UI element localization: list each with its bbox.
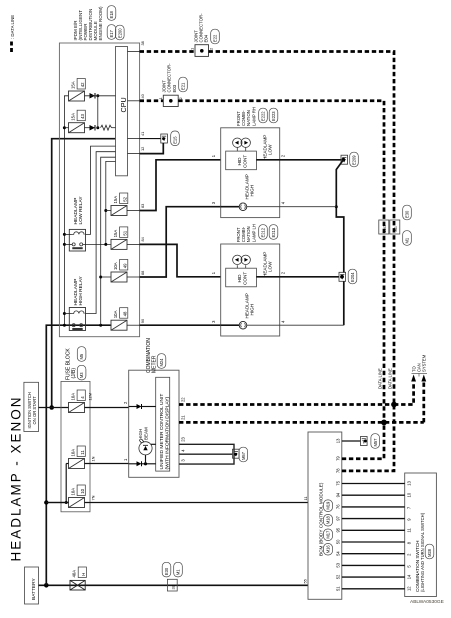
- fuse 10A 10 label: [70, 485, 85, 496]
- fuse 10A 48: [111, 320, 127, 330]
- node battery rail junction: [44, 583, 49, 588]
- fuse 10A 49 label: [113, 260, 128, 271]
- svg-text:M24: M24: [159, 358, 164, 367]
- wire comb switch row 52-14: [342, 576, 405, 578]
- wire comb switch row 50-8: [342, 541, 405, 543]
- wire fuse10 input: [46, 502, 68, 504]
- fusible link 40A H: [70, 580, 85, 590]
- wire LED to unit: [151, 443, 156, 445]
- wire CPU to low relay coil: [86, 146, 116, 234]
- svg-text:21: 21: [181, 415, 186, 420]
- fusible link label 40A H: [71, 567, 86, 578]
- svg-text:2: 2: [209, 48, 214, 50]
- diode after fuse 43: [90, 125, 96, 131]
- svg-text:E213: E213: [271, 227, 276, 237]
- wire fuse11 input: [66, 463, 68, 465]
- node bus high contact: [63, 324, 66, 327]
- svg-text:LOW RELAY: LOW RELAY: [78, 196, 84, 225]
- node CAN-H junction: [391, 402, 397, 408]
- joint connector E03 label: [162, 63, 177, 93]
- wire fuse48 out: [127, 324, 140, 326]
- lamp LH xenon bulb: [233, 255, 251, 268]
- svg-text:M5: M5: [79, 353, 84, 359]
- fuse 10A 11 label: [70, 446, 85, 457]
- svg-text:E15: E15: [173, 136, 178, 144]
- svg-text:49: 49: [123, 263, 128, 268]
- svg-text:15A: 15A: [113, 196, 118, 204]
- svg-text:ON OR START: ON OR START: [32, 396, 37, 425]
- node LH ground: [340, 275, 344, 279]
- label TO CAN SYSTEM: [411, 354, 427, 376]
- svg-text:M3: M3: [79, 372, 84, 378]
- wire fuse42 row to CPU: [85, 95, 116, 97]
- svg-text:15A: 15A: [70, 113, 75, 121]
- svg-text:51: 51: [336, 586, 341, 591]
- svg-text:M57: M57: [241, 451, 246, 460]
- fuse 10A 4 label: [70, 390, 85, 401]
- connector oval E222: [259, 108, 268, 123]
- connector oval E223: [269, 108, 278, 123]
- svg-text:83: 83: [140, 204, 145, 208]
- wire diode2 to unit: [142, 406, 156, 408]
- wire 7N to BCM: [85, 502, 309, 504]
- svg-text:7N: 7N: [91, 495, 96, 500]
- svg-text:13: 13: [406, 480, 411, 485]
- svg-text:41: 41: [140, 132, 145, 136]
- wire fuse49 input: [101, 276, 111, 278]
- node RH pin4 join: [335, 205, 338, 208]
- wire comb switch row 97-9: [342, 518, 405, 520]
- svg-text:38: 38: [140, 41, 145, 45]
- wire ignition row: [39, 407, 69, 409]
- meter pin1 row: [129, 463, 137, 465]
- ignition switch box: [24, 382, 39, 431]
- connector oval M28: [425, 544, 434, 559]
- svg-text:ENGINE ROOM): ENGINE ROOM): [98, 6, 103, 41]
- svg-text:52: 52: [336, 574, 341, 579]
- lamp RH xenon bulb: [233, 138, 251, 151]
- wire high coil left: [64, 313, 71, 315]
- svg-text:53: 53: [336, 562, 341, 567]
- node bus feed: [99, 324, 102, 327]
- svg-text:(LIGHTING AND TURN SIGNAL SWIT: (LIGHTING AND TURN SIGNAL SWITCH): [420, 512, 425, 592]
- connector oval M3: [77, 365, 86, 380]
- lamp RH label: [236, 107, 256, 126]
- connector oval M17: [324, 529, 333, 541]
- lamp RH HEADLAMP HIGH label: [245, 174, 255, 199]
- IPDM E/R label: [73, 6, 103, 41]
- svg-text:E30: E30: [405, 210, 410, 218]
- svg-text:10A: 10A: [113, 262, 118, 270]
- svg-text:CONT: CONT: [242, 155, 247, 168]
- svg-text:75: 75: [336, 480, 341, 485]
- wire battery feed into IPDM: [52, 324, 112, 326]
- fuse 15A 51: [111, 239, 127, 249]
- connector oval E30 CAN: [403, 205, 412, 220]
- svg-text:SYSTEM: SYSTEM: [422, 354, 427, 372]
- node fuse10 input junction: [65, 501, 68, 504]
- connector oval E209: [350, 152, 359, 167]
- svg-text:88: 88: [140, 271, 145, 275]
- connector oval M5: [77, 347, 86, 362]
- connector oval M1 CAN: [403, 231, 412, 246]
- headlamp low relay label: [73, 196, 84, 225]
- svg-text:78: 78: [336, 468, 341, 473]
- connector oval E22: [211, 29, 220, 44]
- M57 connector box BCM: [361, 437, 368, 446]
- combination meter box: [129, 370, 179, 477]
- svg-text:E04: E04: [204, 34, 209, 42]
- wire RH low feed: [140, 160, 221, 211]
- front combination lamp RH box: [221, 128, 280, 218]
- svg-text:54: 54: [336, 551, 341, 556]
- wire row12 to E15: [140, 143, 164, 154]
- svg-text:40A: 40A: [71, 570, 76, 578]
- svg-text:BCM (BODY CONTROL MODULE): BCM (BODY CONTROL MODULE): [319, 482, 324, 556]
- lamp RH HEADLAMP LOW label: [263, 135, 273, 160]
- svg-text:M1: M1: [176, 569, 181, 575]
- svg-text:CONT: CONT: [242, 272, 247, 285]
- svg-text:LAMP LH: LAMP LH: [251, 224, 256, 242]
- ground E209 box: [341, 155, 348, 164]
- connector oval M57 meter: [239, 447, 248, 462]
- wire meter row21 dashed: [179, 421, 424, 424]
- svg-text:M16: M16: [326, 545, 331, 554]
- wire LH high bulb row: [221, 324, 240, 326]
- battery box: [25, 567, 39, 604]
- fuse 15A 42: [69, 91, 85, 101]
- wire fuse43 input: [64, 127, 68, 129]
- node ignition rail to ign row: [49, 405, 54, 410]
- wire RH pin4 row: [280, 206, 337, 208]
- svg-text:11: 11: [406, 528, 411, 533]
- fuse 10A 11: [69, 459, 85, 469]
- high beam label: [138, 427, 148, 440]
- wire high beam branch: [145, 455, 147, 464]
- wire CPU row40 inside: [128, 100, 140, 102]
- wire low contact output: [83, 243, 111, 245]
- connector oval E17: [107, 25, 116, 40]
- node low bus contact row: [104, 243, 107, 246]
- combination switch label: [415, 512, 425, 592]
- svg-text:1N: 1N: [91, 456, 96, 461]
- fuse 10A 10: [69, 498, 85, 508]
- svg-text:LOW: LOW: [268, 261, 273, 272]
- connector oval M1 battery wire: [174, 562, 183, 577]
- wire CPU to high fuse bus: [101, 157, 116, 325]
- svg-text:10: 10: [80, 488, 85, 493]
- front combination lamp LH box: [221, 244, 280, 336]
- relay headlamp high box: [69, 308, 85, 331]
- fuse 10A 49: [111, 272, 127, 282]
- svg-text:12: 12: [406, 586, 411, 591]
- pass-through 8G box: [390, 220, 400, 234]
- wire fuse49 out: [127, 276, 140, 278]
- wire CPU to high relay coil: [86, 152, 116, 314]
- svg-text:3Z: 3Z: [171, 584, 176, 589]
- svg-text:E22: E22: [213, 34, 218, 42]
- svg-text:LAMP RH: LAMP RH: [251, 107, 256, 126]
- wire meter rows 23-3 loop: [179, 444, 234, 464]
- svg-text:55: 55: [303, 579, 308, 583]
- connector oval E213: [269, 225, 278, 240]
- svg-text:DATA LINE: DATA LINE: [387, 368, 392, 389]
- relay headlamp low box: [69, 229, 85, 251]
- fuse 15A 43 label: [70, 110, 85, 121]
- wire comb switch row 95-11: [342, 529, 405, 531]
- wire row41 to E15: [140, 138, 161, 140]
- diode meter pin2: [137, 404, 142, 409]
- wire fuse52 out: [127, 210, 140, 212]
- fuse 15A 51 label: [113, 227, 128, 238]
- wire BCM pin13 row: [342, 440, 361, 442]
- svg-text:M28: M28: [427, 548, 432, 557]
- lamp LH label: [236, 224, 256, 242]
- diode after fuse 42: [90, 93, 96, 99]
- relay high coil: [72, 311, 85, 314]
- fuse 10A 48 label: [113, 308, 128, 319]
- wire ground vertical upper: [336, 160, 344, 273]
- wire fuse52 input: [106, 210, 111, 212]
- joint connector E04 label: [193, 13, 208, 43]
- meter M57 connector box: [233, 449, 240, 458]
- svg-text:10A: 10A: [113, 310, 118, 318]
- wire low contact left: [64, 243, 72, 245]
- svg-text:M1: M1: [405, 237, 410, 243]
- svg-text:(J/B): (J/B): [71, 368, 77, 379]
- lamp RH high bulb: [239, 203, 247, 211]
- svg-text:E212: E212: [261, 227, 266, 237]
- ground E204 box: [339, 272, 346, 281]
- svg-text:2: 2: [178, 97, 183, 99]
- node diode43 output: [96, 126, 99, 129]
- svg-text:E204: E204: [350, 272, 355, 282]
- wire meter row4: [179, 453, 233, 455]
- svg-text:: DATA LINE: : DATA LINE: [10, 15, 15, 39]
- svg-text:13: 13: [336, 438, 341, 443]
- svg-text:15A: 15A: [70, 81, 75, 89]
- wire IPDM internal bus: [64, 96, 68, 325]
- wire BCM row79 dashed: [342, 422, 384, 458]
- IPDM E/R box: [59, 43, 139, 337]
- wire comb switch row 76-7: [342, 506, 405, 508]
- svg-text:E03: E03: [172, 84, 177, 92]
- relay high contact: [72, 324, 83, 330]
- svg-text:DATA LINE: DATA LINE: [377, 368, 382, 389]
- node high bus fuse49: [99, 276, 102, 279]
- lamp LH HEADLAMP LOW label: [263, 252, 273, 277]
- lamp RH HID CONT label: [237, 155, 247, 168]
- arrow CAN-L: [421, 375, 426, 382]
- wire battery rail vertical: [46, 325, 51, 585]
- svg-text:12: 12: [140, 147, 145, 151]
- svg-text:76: 76: [336, 504, 341, 509]
- node meter M57: [234, 453, 237, 456]
- fuse 15A 52 label: [113, 193, 128, 204]
- svg-text:8G: 8G: [393, 226, 398, 231]
- svg-text:H: H: [81, 573, 86, 576]
- svg-text:23: 23: [181, 436, 186, 441]
- fuse 15A 52: [111, 206, 127, 216]
- node bus high coil: [63, 312, 66, 315]
- svg-text:95: 95: [336, 527, 341, 532]
- svg-text:ABLWA0530GE: ABLWA0530GE: [410, 599, 444, 605]
- wire LH pin2 to ground: [280, 276, 339, 278]
- connector oval E21: [179, 77, 188, 92]
- connector oval E200: [116, 25, 125, 40]
- svg-text:79: 79: [336, 456, 341, 461]
- wire low coil left: [64, 233, 71, 235]
- svg-text:M17: M17: [326, 530, 331, 539]
- fuse 10A 4: [69, 403, 85, 413]
- connector oval E212: [259, 225, 268, 240]
- resistor on fuse43 row: [101, 125, 112, 130]
- wire comb switch row 51-12: [342, 588, 405, 590]
- svg-text:11: 11: [303, 496, 308, 500]
- svg-text:14: 14: [406, 574, 411, 579]
- wire CPU row38 inside: [128, 51, 140, 53]
- svg-text:48: 48: [123, 311, 128, 316]
- wire meter row22 dashed: [179, 403, 394, 406]
- svg-text:E223: E223: [271, 111, 276, 121]
- fuse 15A 43: [69, 123, 85, 133]
- connector oval E204: [348, 269, 357, 284]
- node E03: [169, 99, 173, 103]
- svg-text:HIGH RELAY: HIGH RELAY: [78, 276, 84, 306]
- unified meter label: [159, 394, 170, 470]
- wire fuse43 row: [85, 127, 90, 129]
- arrow CAN-H: [411, 375, 416, 382]
- svg-text:19G: 19G: [382, 225, 387, 232]
- svg-text:E209: E209: [352, 155, 357, 165]
- wire CPU row41 inside: [128, 138, 140, 140]
- svg-text:15A: 15A: [113, 230, 118, 238]
- svg-text:10A: 10A: [70, 449, 75, 457]
- svg-text:11: 11: [80, 450, 85, 455]
- wire 1N to meter: [85, 463, 129, 465]
- wire CAN row38 dashed cont: [209, 52, 395, 405]
- svg-text:97: 97: [336, 515, 341, 520]
- legend data line sample: [10, 42, 13, 53]
- node low bus fuse52: [104, 209, 107, 212]
- relay low coil: [72, 232, 85, 235]
- joint connector E03 box: [163, 95, 178, 106]
- ignition switch label: [27, 392, 37, 428]
- wire LH pin4 row: [280, 324, 344, 326]
- node BCM M57: [364, 440, 367, 443]
- CPU box: [116, 47, 128, 176]
- svg-text:10A: 10A: [70, 393, 75, 401]
- fuse block label: [66, 348, 77, 380]
- svg-text:E222: E222: [261, 111, 266, 121]
- harness pass-through box on battery wire: [167, 579, 177, 591]
- svg-text:E18: E18: [109, 10, 114, 18]
- wire CAN row40 dashed: [140, 99, 164, 102]
- svg-text:50: 50: [336, 539, 341, 544]
- wire diode42-43 tie: [97, 96, 99, 128]
- wire LH high bulb to pin4: [247, 324, 280, 326]
- lamp LH HEADLAMP HIGH label: [245, 293, 255, 318]
- wire BCM row78 dashed: [342, 405, 394, 471]
- headlamp high relay label: [73, 276, 84, 306]
- meter pin2 row: [129, 406, 137, 408]
- pass-through 19G box: [379, 220, 389, 234]
- lamp LH HID CONT label: [237, 272, 247, 285]
- svg-text:1: 1: [190, 48, 195, 50]
- wire RH high feed: [140, 207, 221, 277]
- wire diode1 to unit: [142, 463, 156, 465]
- svg-text:M18: M18: [326, 515, 331, 524]
- svg-text:94: 94: [336, 492, 341, 497]
- ground connector E15 box: [161, 134, 168, 143]
- wire comb switch row 94-10: [342, 494, 405, 496]
- svg-text:E21: E21: [181, 82, 186, 90]
- wire CPU row12 inside: [128, 153, 140, 155]
- wire comb switch row 53-5: [342, 564, 405, 566]
- wire RH pin2 internal: [256, 159, 279, 161]
- svg-text:HIGH: HIGH: [250, 185, 255, 196]
- svg-text:52: 52: [123, 196, 128, 201]
- fuse block box: [61, 381, 90, 511]
- svg-text:E30: E30: [164, 567, 169, 575]
- svg-text:HIGH: HIGH: [250, 304, 255, 315]
- lamp LH HID CONT box: [226, 268, 257, 287]
- BCM box: [308, 432, 342, 599]
- wire LH pin2 internal: [256, 276, 279, 278]
- wire ground vertical lower: [343, 282, 345, 326]
- wire LH high feed: [140, 324, 221, 326]
- connector oval M16: [324, 544, 333, 556]
- connector oval E15: [171, 131, 180, 146]
- node bus fuse43: [63, 126, 66, 129]
- lamp LH high bulb: [239, 321, 247, 329]
- node bus low contact: [63, 243, 66, 246]
- node high beam branch: [144, 462, 147, 465]
- node E15: [162, 137, 165, 140]
- svg-text:HEADLAMP - XENON: HEADLAMP - XENON: [9, 395, 24, 561]
- wire comb switch row 54-2: [342, 553, 405, 555]
- relay low contact: [72, 243, 83, 249]
- svg-text:M57: M57: [373, 438, 378, 447]
- joint connector E04 box: [195, 45, 209, 57]
- svg-text:10A: 10A: [70, 488, 75, 496]
- wire CAN-H to system: [394, 381, 414, 405]
- svg-text:42: 42: [80, 82, 85, 87]
- svg-text:43: 43: [80, 114, 85, 119]
- wire LH low feed: [140, 244, 221, 276]
- wire fuse block internal feed: [46, 464, 66, 503]
- node E04: [200, 49, 204, 53]
- wire CPU to low fuse bus: [106, 161, 116, 244]
- svg-text:10: 10: [406, 492, 411, 497]
- wire ignition rail vertical: [52, 139, 116, 408]
- wire RH high bulb to pin4: [247, 206, 280, 208]
- svg-text:E17: E17: [109, 29, 114, 37]
- wire CAN row40 dashed cont: [178, 101, 384, 423]
- wire RH high bulb row: [221, 206, 240, 208]
- svg-text:(WITH INFORMATION DISPLAY): (WITH INFORMATION DISPLAY): [164, 396, 170, 469]
- lamp RH HID CONT box: [226, 151, 257, 170]
- wire RH pin2 to ground: [280, 159, 341, 161]
- combination switch box: [405, 473, 437, 597]
- svg-text:22: 22: [181, 397, 186, 402]
- svg-text:E200: E200: [117, 28, 122, 38]
- connector oval M18: [324, 515, 333, 527]
- svg-text:BATTERY: BATTERY: [31, 578, 37, 600]
- connector oval M57 BCM: [371, 434, 380, 449]
- combination meter label: [146, 338, 157, 373]
- connector oval M19: [324, 500, 333, 512]
